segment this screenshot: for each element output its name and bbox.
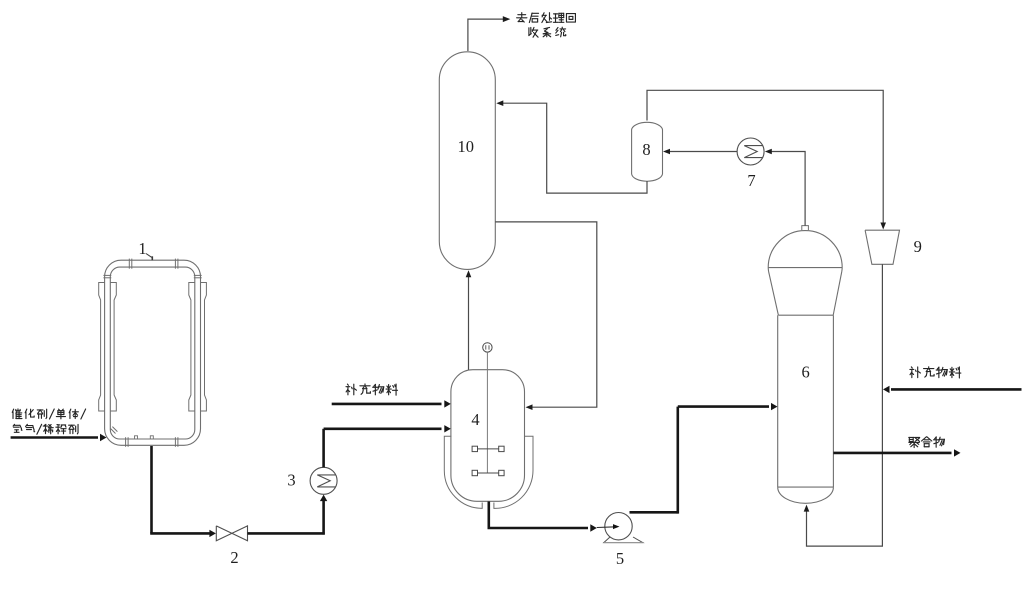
svg-text:10: 10 [457,137,474,156]
svg-text:3: 3 [287,470,295,489]
svg-text:5: 5 [616,549,624,568]
svg-text:2: 2 [230,548,238,567]
svg-text:1: 1 [138,239,146,258]
svg-text:9: 9 [914,237,922,256]
svg-text:6: 6 [801,363,809,382]
svg-text:8: 8 [642,140,650,159]
svg-text:4: 4 [471,410,479,429]
svg-text:7: 7 [747,171,755,190]
